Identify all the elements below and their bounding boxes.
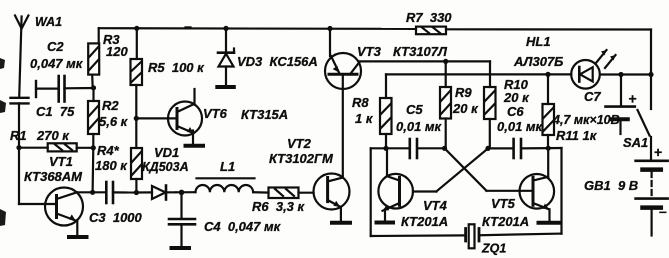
resistor R2: [88, 88, 99, 148]
wire multivibrator frame: [371, 148, 562, 236]
node R10/VT4 base coupling: [485, 146, 490, 151]
resistor R5: [131, 28, 143, 85]
svg-text:R9: R9: [455, 85, 472, 100]
svg-text:R1: R1: [10, 128, 27, 143]
svg-text:АЛ307Б: АЛ307Б: [513, 54, 563, 69]
capacitor C4: [169, 192, 195, 247]
svg-text:0,01 мк: 0,01 мк: [396, 119, 443, 134]
resistor R7: [416, 27, 446, 35]
wire B positive rail: [386, 74, 651, 98]
scan smudge left edge 3: [0, 209, 6, 226]
svg-text:R7 330: R7 330: [406, 10, 452, 25]
transistor VT3: [325, 29, 361, 90]
svg-text:+: +: [629, 91, 637, 107]
switch SA1: [638, 75, 652, 160]
transistor VT5: [487, 148, 555, 221]
svg-text:VT4: VT4: [423, 198, 448, 213]
svg-text:4,7 мк×10В: 4,7 мк×10В: [552, 113, 620, 127]
svg-text:R5 100 к: R5 100 к: [148, 60, 205, 75]
zener VD3: [218, 28, 234, 85]
svg-text:КТ201А: КТ201А: [401, 214, 448, 229]
antenna WA1: [15, 16, 28, 98]
LED HL1: [571, 50, 615, 89]
resistor R4: [131, 85, 142, 193]
node B wire: [488, 147, 562, 150]
node C7 top: [618, 72, 623, 77]
svg-text:R4*: R4*: [97, 143, 120, 158]
wire A VT3 collector rail: [360, 61, 491, 87]
svg-text:0,01 мк: 0,01 мк: [497, 119, 544, 134]
node VT3 emitter top: [327, 26, 332, 31]
transistor VT1: [45, 188, 83, 236]
ground VT2: [332, 221, 350, 225]
node VT1 collector: [90, 190, 95, 195]
resistor R9: [440, 61, 451, 148]
top rail: [99, 28, 651, 74]
svg-text:С7: С7: [584, 89, 601, 104]
transistor VT4: [378, 148, 436, 221]
resistor R3: [88, 28, 99, 88]
svg-text:L1: L1: [220, 159, 235, 174]
wire cross coupling C5 to VT5 base: [445, 148, 487, 191]
resistor R8: [380, 98, 392, 148]
scan smudge left edge 2: [0, 100, 6, 113]
node C2/R3/R2: [91, 85, 96, 90]
capacitor C1: [11, 98, 29, 104]
node R1/R2: [91, 145, 96, 150]
capacitor C2: [36, 76, 94, 102]
diode VD1: [136, 186, 176, 200]
wire VT1 collector to C3: [77, 191, 104, 193]
node R11/VT5 collector: [546, 146, 551, 151]
wire antenna column: [19, 103, 55, 204]
svg-text:С2: С2: [47, 39, 64, 54]
node C5/R9: [442, 146, 447, 151]
svg-text:VT6: VT6: [203, 106, 228, 121]
svg-text:КТ315А: КТ315А: [241, 107, 288, 122]
transistor VT2: [314, 174, 350, 222]
node VT6 collector tick on rail: [186, 26, 190, 29]
node R1 left: [16, 145, 21, 150]
svg-text:–: –: [659, 203, 667, 219]
ground VD3: [217, 85, 234, 89]
svg-text:180 к: 180 к: [95, 158, 128, 173]
svg-text:VD1: VD1: [154, 145, 179, 160]
node SA1 top: [648, 72, 653, 77]
resistor R6: [269, 188, 314, 199]
capacitor C3: [106, 182, 136, 203]
svg-text:VT3: VT3: [357, 44, 382, 59]
svg-text:С4 0,047 мк: С4 0,047 мк: [204, 219, 282, 234]
svg-text:С3 1000: С3 1000: [89, 210, 143, 225]
node R11 top: [545, 72, 550, 77]
svg-text:0,047 мк: 0,047 мк: [30, 56, 84, 71]
capacitor C6: [514, 139, 521, 158]
svg-text:VD3 КС156А: VD3 КС156А: [237, 54, 318, 69]
svg-text:R8: R8: [352, 95, 369, 110]
svg-text:120: 120: [106, 44, 128, 59]
svg-text:SA1: SA1: [623, 135, 648, 150]
svg-text:VT1: VT1: [49, 154, 73, 169]
svg-text:R6 3,3 к: R6 3,3 к: [252, 199, 306, 214]
ground C4: [172, 246, 190, 250]
svg-text:С6: С6: [507, 104, 524, 119]
svg-text:HL1: HL1: [526, 34, 551, 49]
node VD3 top: [223, 26, 228, 31]
svg-text:+: +: [654, 144, 662, 160]
svg-text:R11 1к: R11 1к: [556, 128, 598, 143]
node A wire: [371, 147, 445, 149]
node VT6 base: [134, 116, 139, 121]
capacitor C7: [606, 75, 635, 135]
node VD1/C4/L1: [179, 190, 185, 196]
node R9 top: [443, 59, 448, 64]
svg-text:С1 75: С1 75: [36, 104, 75, 119]
svg-text:270 к: 270 к: [36, 128, 70, 143]
node R8/VT4 collector: [383, 146, 388, 151]
svg-text:С5: С5: [406, 102, 423, 117]
wire R2 node to VT1 collector node: [91, 148, 94, 193]
scan smudge left edge 1: [0, 58, 5, 69]
svg-text:20 к: 20 к: [503, 90, 530, 105]
svg-text:VT5: VT5: [491, 196, 516, 211]
svg-text:КТ201А: КТ201А: [482, 214, 529, 229]
wire cross coupling C6 to VT4 base: [436, 148, 488, 191]
ground VT6: [186, 144, 204, 148]
node R5 top: [134, 26, 139, 31]
svg-text:GB1 9 В: GB1 9 В: [584, 178, 638, 193]
svg-text:КТ3102ГМ: КТ3102ГМ: [269, 151, 334, 166]
svg-text:20 к: 20 к: [452, 101, 479, 116]
svg-text:КТ368АМ: КТ368АМ: [24, 169, 83, 184]
ground VT5: [539, 221, 561, 225]
inductor L1: [176, 178, 269, 192]
ground VT1: [69, 235, 87, 239]
svg-text:WA1: WA1: [35, 15, 62, 29]
resistor R1: [19, 143, 93, 151]
wire VT2 collector to VT3 base: [342, 74, 344, 177]
crystal ZQ1: [466, 224, 479, 248]
svg-text:КТ3107Л: КТ3107Л: [393, 44, 448, 59]
ground VT4: [377, 221, 394, 225]
transistor VT6: [136, 89, 202, 145]
svg-text:R2: R2: [102, 98, 119, 113]
capacitor C5: [410, 139, 417, 158]
battery GB1: [636, 161, 668, 236]
svg-text:ZQ1: ZQ1: [481, 242, 506, 256]
svg-text:5,6 к: 5,6 к: [99, 114, 129, 129]
svg-text:VT2: VT2: [287, 136, 312, 151]
svg-text:1 к: 1 к: [355, 111, 374, 126]
resistor R11: [543, 75, 555, 149]
svg-text:КД503А: КД503А: [142, 160, 189, 174]
node R4 bottom: [134, 190, 139, 195]
resistor R10: [484, 87, 496, 148]
